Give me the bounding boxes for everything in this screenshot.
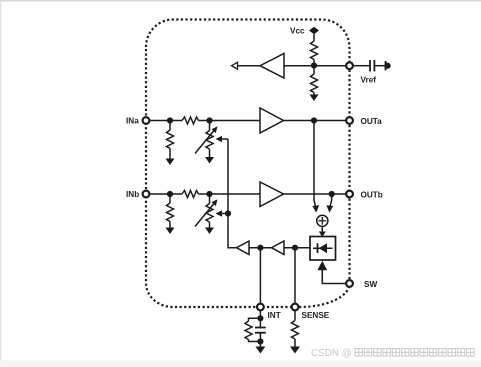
svg-text:OUTb: OUTb [361, 190, 383, 199]
capacitor (Vref external) [369, 60, 371, 71]
resistor (INb series) [182, 191, 199, 198]
wire divider node to Vref pin [284, 65, 345, 67]
node AGC branch [225, 210, 231, 216]
op-amp B (channel b amplifier) [260, 182, 284, 207]
buffer 2 (pointing left) [272, 241, 285, 255]
wire INT RC to ground [259, 342, 261, 348]
node INT RC top [257, 315, 263, 321]
wire AGC control line [228, 139, 237, 248]
node Vref divider junction [311, 62, 317, 68]
wire SENSE tap to SENSE pin [294, 248, 296, 303]
node INb shunt junction [167, 191, 173, 197]
svg-text:INT: INT [268, 311, 281, 320]
node OUTa sense junction [311, 117, 317, 123]
wire buffer output left [238, 65, 260, 67]
arrow (Vref internal feed, open) [232, 62, 238, 69]
summing junction [317, 215, 328, 226]
ground (Vcc divider) [310, 95, 319, 102]
wire amp B output to OUTb pin [284, 193, 346, 195]
wire INT pin to RC [259, 311, 261, 318]
pin OUTb [346, 191, 353, 198]
terminal Vref external [385, 61, 387, 70]
node INT RC bottom [257, 338, 263, 344]
wire OUTa sense down to summer [314, 121, 316, 208]
pin INb [143, 191, 150, 198]
page left border line [0, 1, 1, 361]
variable resistor (INa gain control) [209, 121, 211, 131]
node INa varistor junction [206, 117, 212, 123]
wire SW pin to detector (with up arrow) [322, 269, 345, 284]
wire amp A output to OUTa pin [284, 120, 346, 122]
svg-text:CSDN @: CSDN @ [311, 348, 352, 359]
resistor (INa series) [182, 117, 199, 124]
wire summer to detector box [321, 226, 323, 233]
capacitor (INT external) [259, 318, 261, 327]
resistor (INT external, parallel) [249, 318, 261, 321]
ground (INa shunt) [166, 159, 175, 166]
wire upper resistor to Vref node [313, 60, 315, 66]
diode (inside detector) [313, 247, 333, 249]
ground (SENSE) [290, 347, 300, 354]
wire OUTb sense down to summer [330, 194, 332, 207]
svg-text:SW: SW [364, 280, 377, 289]
page top border line [0, 0, 481, 2]
pin Vref [346, 62, 353, 69]
resistor (SENSE external) [292, 321, 299, 340]
node INT tap [257, 245, 263, 251]
node INa shunt junction [167, 117, 173, 123]
ground (INT) [255, 347, 265, 354]
watermark pseudo-CJK glyphs [355, 349, 474, 357]
wire series resistor to amp A [199, 120, 261, 122]
terminal Vcc (filled diamond) [309, 27, 319, 34]
svg-text:INa: INa [126, 117, 139, 126]
svg-text:Vref: Vref [361, 76, 377, 85]
wire buffer2 to buffer1 [249, 247, 272, 249]
wire AGC to varistor B (arrow) [221, 213, 228, 215]
pin OUTa [346, 117, 353, 124]
ground (INb shunt) [166, 228, 175, 235]
wire Vref pin to capacitor [354, 65, 370, 67]
variable resistor (INb gain control) [209, 194, 211, 204]
wire series resistor to amp B [199, 193, 261, 195]
resistor (INb shunt) [169, 194, 171, 203]
resistor (Vcc divider lower) [313, 66, 315, 75]
svg-text:INb: INb [126, 190, 139, 199]
wire INT tap to INT pin [259, 248, 261, 303]
detector box (peak detector) [310, 237, 336, 261]
svg-text:OUTa: OUTa [361, 117, 383, 126]
svg-text:SENSE: SENSE [302, 311, 330, 320]
ground (INb varistor) [205, 228, 214, 235]
svg-text:Vcc: Vcc [290, 27, 305, 36]
buffer 1 (pointing left) [237, 241, 250, 255]
resistor (INa shunt) [169, 121, 171, 131]
node INb varistor junction [206, 191, 212, 197]
node SENSE tap [292, 245, 298, 251]
op-amp A (channel a amplifier) [260, 108, 284, 133]
resistor (Vcc divider upper) [311, 41, 318, 60]
wire capacitor to external terminal [375, 65, 385, 67]
wire SENSE pin to resistor [294, 311, 296, 320]
page bottom strip [0, 361, 481, 367]
IC package outline (dashed rounded box) [146, 20, 350, 308]
wire Vcc dot to upper divider resistor [313, 31, 315, 42]
pin SW [346, 280, 353, 287]
wire INa pin to series resistor [150, 120, 182, 122]
op-amp U1 (Vref buffer, pointing left) [260, 54, 284, 79]
wire lower resistor to ground [313, 93, 315, 97]
pin SENSE [292, 304, 299, 311]
pin INa [143, 117, 150, 124]
ground (INa varistor) [205, 157, 214, 164]
node OUTb sense junction [329, 191, 335, 197]
wire detector output to buffers [284, 247, 310, 249]
pin INT [257, 304, 264, 311]
wire AGC to varistor A (arrow) [221, 138, 228, 140]
wire INb pin to series resistor [150, 193, 182, 195]
